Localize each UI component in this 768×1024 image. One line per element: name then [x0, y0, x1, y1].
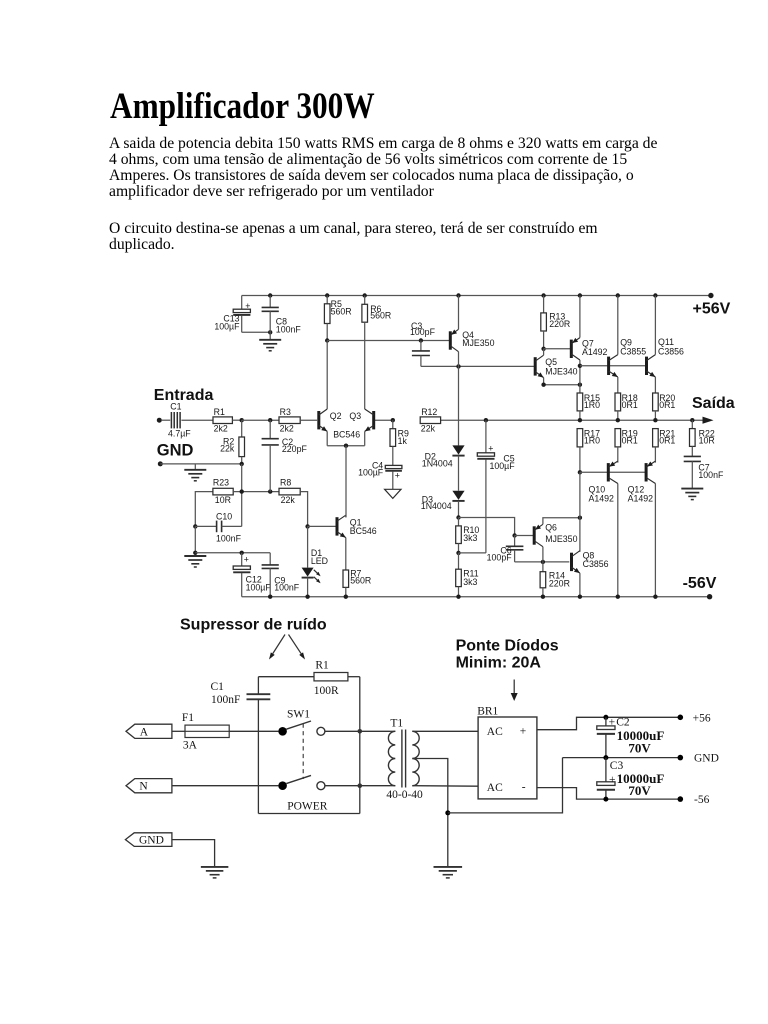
wire tail current to Q1 collector: [345, 446, 347, 518]
ground symbol lower left: [184, 556, 206, 567]
svg-text:100nF: 100nF: [698, 470, 724, 480]
transistor Q12 A1492: [628, 461, 656, 504]
wire Q7 collector to +56V rail: [579, 296, 581, 338]
capacitor C10 100nF: [193, 512, 242, 544]
svg-text:+: +: [520, 726, 527, 738]
capacitor C1 100nF (snubber): [211, 677, 271, 814]
svg-text:Q2: Q2: [330, 411, 342, 421]
ground below C8: [259, 332, 281, 351]
transistor Q2 BC546 (with Q3 differential pair): [317, 409, 361, 440]
wire T1 secondary bottom to bridge AC: [412, 785, 478, 788]
paragraph 2: [109, 221, 598, 253]
ground below C7: [681, 489, 703, 500]
svg-text:100nF: 100nF: [211, 694, 240, 706]
capacitor C13 100uF: [214, 296, 250, 333]
resistor R10 3k3: [456, 518, 480, 553]
transistor Q7 A1492: [570, 338, 608, 360]
svg-text:R23: R23: [213, 477, 229, 487]
wire R6 to Q3 collector: [364, 322, 366, 409]
svg-text:R1: R1: [214, 407, 225, 417]
svg-text:C10: C10: [216, 512, 232, 522]
paragraph 1: [109, 136, 657, 200]
wire GND mid rail: [563, 755, 684, 761]
wire +56V top supply rail: [242, 293, 714, 298]
svg-text:+56V: +56V: [693, 301, 731, 318]
ground symbol below centre tap: [434, 867, 463, 878]
svg-text:Q6: Q6: [545, 523, 557, 533]
node Saida label: [692, 395, 735, 412]
svg-text:SW1: SW1: [287, 709, 310, 721]
transistor Q11 C3856: [645, 337, 684, 377]
svg-text:100µF: 100µF: [246, 582, 272, 592]
capacitor C3 100pF: [410, 321, 436, 367]
svg-text:Entrada: Entrada: [154, 387, 214, 404]
svg-text:R12: R12: [421, 407, 437, 417]
svg-text:4.7µF: 4.7µF: [168, 428, 191, 438]
transistor Q3 BC546: [365, 409, 376, 431]
resistor R9 1k: [390, 420, 409, 446]
svg-text:BR1: BR1: [477, 705, 498, 717]
capacitor C8 100nF: [262, 296, 302, 335]
connector GND: [125, 833, 214, 867]
document title: [110, 88, 375, 125]
wire Q1 emitter to R7: [345, 538, 347, 570]
resistor R8 22k: [279, 477, 308, 526]
svg-text:AC: AC: [487, 726, 503, 738]
svg-text:C1: C1: [170, 401, 181, 411]
transistor Q4 MJE350: [449, 329, 495, 351]
node -56V label: [683, 575, 717, 592]
svg-text:LED: LED: [311, 556, 328, 566]
node Entrada label: [154, 387, 214, 404]
resistor R21 0R1: [653, 428, 676, 462]
resistor R17 1R0: [577, 428, 600, 472]
transistor Q6 MJE350: [533, 523, 578, 547]
wire C13 to C8 bottom: [242, 330, 273, 334]
wire snubber loop bottom (POWER box): [258, 677, 362, 814]
wire Q4 emitter to +56V rail: [458, 296, 460, 330]
svg-text:70V: 70V: [628, 741, 651, 756]
svg-text:1N4004: 1N4004: [421, 501, 452, 511]
node -56 label: [694, 794, 710, 806]
svg-text:F1: F1: [182, 712, 194, 724]
node Supressor de ruido label: [180, 617, 327, 634]
svg-text:T1: T1: [390, 717, 403, 729]
wire BR1 - output to C3 / -56: [537, 788, 683, 802]
svg-text:A1492: A1492: [582, 347, 608, 357]
wire C3 bottom to Q5 base: [421, 364, 534, 368]
wire GND input line: [158, 461, 244, 466]
capacitor C3 10000uF 70V: [597, 758, 665, 800]
capacitor C12 100uF: [233, 553, 271, 597]
switch SW1 (upper pole): [278, 709, 325, 736]
svg-text:Saída: Saída: [692, 395, 735, 412]
svg-text:-: -: [522, 781, 526, 793]
svg-text:22k: 22k: [220, 444, 235, 454]
capacitor C4 100uF: [358, 446, 402, 480]
svg-text:560R: 560R: [370, 311, 391, 321]
resistor R1 2k2: [213, 407, 242, 434]
svg-text:R3: R3: [280, 407, 291, 417]
svg-text:AC: AC: [487, 782, 503, 794]
capacitor C7 100nF: [684, 446, 724, 488]
switch SW1 (lower pole): [278, 775, 325, 790]
svg-text:C3855: C3855: [620, 347, 646, 357]
svg-text:C1: C1: [211, 681, 225, 693]
connector A: [126, 724, 185, 738]
resistor R18 0R1: [615, 393, 638, 420]
svg-text:+: +: [395, 471, 400, 481]
wire BR1 + output to C2 / +56: [537, 715, 683, 730]
fuse F1 3A: [182, 712, 229, 751]
svg-text:560R: 560R: [331, 306, 352, 316]
wire Q6 collector to Q8 collector rail: [543, 516, 582, 525]
svg-text:100µF: 100µF: [358, 467, 384, 477]
resistor R11 3k3: [456, 553, 479, 597]
svg-text:22k: 22k: [421, 423, 436, 433]
svg-text:BC546: BC546: [333, 430, 360, 440]
svg-text:100µF: 100µF: [489, 461, 515, 471]
callout arrows to snubber: [269, 635, 305, 660]
wire ground line to C12 C9: [195, 551, 270, 555]
svg-text:MJE350: MJE350: [462, 338, 494, 348]
wire Q10/Q12 base bus from R17: [578, 470, 646, 474]
svg-text:100nF: 100nF: [216, 533, 242, 543]
resistor R12 22k: [420, 407, 440, 433]
svg-text:100nF: 100nF: [276, 325, 302, 335]
resistor R22 10R: [690, 420, 715, 446]
resistor R20 0R1: [653, 393, 676, 420]
svg-text:10R: 10R: [215, 495, 231, 505]
capacitor C9 100nF: [262, 553, 300, 597]
svg-text:10R: 10R: [699, 436, 715, 446]
wire Q7 emitter to output-device base bus: [578, 360, 582, 393]
svg-text:A1492: A1492: [628, 494, 654, 504]
svg-text:+: +: [245, 301, 250, 311]
svg-text:C2: C2: [616, 716, 630, 728]
callout arrow to bridge: [511, 680, 518, 702]
svg-text:Q5: Q5: [545, 357, 557, 367]
svg-text:A: A: [140, 726, 149, 738]
node GND mid label: [694, 753, 719, 765]
transistor Q5 MJE340: [534, 355, 578, 377]
wire R2 bottom to R23/R8 line: [241, 464, 243, 527]
input node dot Entrada: [157, 418, 170, 423]
wire R5 node to Q4 base: [325, 338, 450, 342]
resistor R7 560R: [343, 568, 371, 596]
node POWER label: [287, 800, 328, 812]
svg-text:3A: 3A: [183, 739, 198, 751]
wire Q10 emitter to -56V rail: [617, 484, 619, 597]
wire output / feedback line: [375, 417, 714, 424]
svg-text:40-0-40: 40-0-40: [386, 789, 423, 801]
capacitor C2 220pF: [262, 420, 308, 491]
svg-text:1k: 1k: [398, 436, 408, 446]
resistor R13 220R: [541, 296, 570, 349]
capacitor C1 4.7uF: [168, 401, 191, 438]
svg-text:+: +: [488, 443, 493, 453]
diode D2 1N4004: [422, 445, 465, 490]
ground symbol below GND connector: [201, 867, 229, 878]
svg-text:N: N: [139, 781, 148, 793]
svg-text:A1492: A1492: [589, 494, 615, 504]
svg-text:3k3: 3k3: [463, 533, 477, 543]
wire C1 to R1: [181, 419, 213, 421]
wire R23 to R8 line: [233, 489, 279, 493]
svg-text:220R: 220R: [549, 319, 570, 329]
wire Q11 collector to +56V rail: [654, 296, 656, 355]
wire -56V bottom supply rail: [242, 594, 713, 599]
wire R17 rail down to Q8 collector: [579, 472, 581, 552]
svg-text:100µF: 100µF: [214, 321, 240, 331]
svg-text:0R1: 0R1: [659, 436, 675, 446]
svg-text:Q3: Q3: [349, 411, 361, 421]
svg-text:220pF: 220pF: [282, 444, 308, 454]
diode D1 LED: [302, 524, 328, 597]
svg-text:R8: R8: [280, 477, 291, 487]
svg-text:-56V: -56V: [683, 575, 717, 592]
resistor R23 10R: [195, 477, 233, 526]
resistor R15 1R0: [577, 393, 600, 420]
svg-text:220R: 220R: [549, 578, 570, 588]
wire R1/R3/R2 junction: [240, 418, 280, 422]
svg-text:+56: +56: [693, 713, 711, 725]
svg-text:MJE340: MJE340: [545, 367, 577, 377]
svg-text:C3856: C3856: [658, 346, 684, 356]
svg-text:POWER: POWER: [287, 800, 328, 812]
resistor R3 2k2: [279, 407, 317, 434]
svg-text:1R0: 1R0: [584, 436, 600, 446]
svg-text:GND: GND: [157, 442, 194, 460]
capacitor C6 100pF: [487, 536, 524, 563]
node +56V label: [693, 301, 731, 318]
svg-text:0R1: 0R1: [659, 400, 675, 410]
resistor R1 100R (snubber): [258, 659, 359, 697]
svg-text:+: +: [609, 774, 616, 786]
svg-text:Supressor de ruído: Supressor de ruído: [180, 617, 327, 634]
transformer T1 40-0-40: [386, 717, 423, 801]
svg-text:R1: R1: [315, 659, 329, 671]
wire T1 secondary top to bridge AC: [412, 730, 478, 732]
node R10/R11/C5 junction: [456, 551, 486, 555]
wire Q9 emitter to R18: [617, 377, 619, 393]
svg-text:+: +: [609, 716, 616, 728]
wire switch to T1 primary (lower): [325, 785, 390, 787]
svg-text:70V: 70V: [628, 783, 651, 798]
transistor Q1 BC546: [308, 515, 377, 537]
wire C6 bottom to R14 / Q8 base: [515, 560, 570, 564]
svg-text:1N4004: 1N4004: [422, 458, 453, 468]
svg-text:-56: -56: [694, 794, 710, 806]
svg-text:0R1: 0R1: [622, 400, 638, 410]
svg-text:100R: 100R: [314, 685, 339, 697]
wire Q9 collector to +56V rail: [617, 296, 619, 355]
wire switch to T1 primary (upper): [325, 730, 390, 732]
connector N: [126, 779, 278, 793]
wire Q4 collector down VAS rail: [458, 352, 460, 446]
transistor Q10 A1492: [589, 461, 618, 504]
svg-text:22k: 22k: [281, 495, 296, 505]
svg-text:100nF: 100nF: [274, 582, 300, 592]
svg-text:C3856: C3856: [583, 559, 609, 569]
node D3 / R10 junction: [456, 515, 460, 519]
svg-text:560R: 560R: [350, 575, 371, 585]
wire T1 centre tap to ground rail: [412, 759, 450, 867]
transistor Q9 C3855: [607, 338, 646, 377]
resistor R19 0R1: [615, 428, 638, 462]
svg-text:2k2: 2k2: [214, 424, 228, 434]
wire R13 bottom / Q5 collector / Q7 base node: [541, 347, 570, 351]
wire Q5 collector to R13 node: [543, 349, 545, 355]
wire Q12 emitter to -56V rail: [654, 484, 656, 597]
wire Q11 emitter to R20: [654, 377, 656, 393]
resistor R14 220R: [540, 562, 570, 597]
svg-text:BC546: BC546: [350, 526, 377, 536]
svg-text:3k3: 3k3: [463, 577, 477, 587]
capacitor C2 10000uF 70V: [597, 716, 665, 757]
svg-text:0R1: 0R1: [622, 436, 638, 446]
resistor R5 560R: [324, 296, 351, 341]
wire D3 node to Q6 base: [459, 518, 534, 538]
node Ponte Diodos label: [456, 637, 559, 671]
wire Q8 emitter to -56V rail: [579, 573, 581, 597]
svg-text:2k2: 2k2: [280, 424, 294, 434]
bridge rectifier BR1: [477, 705, 537, 799]
wire Q2 emitter bus Q3: [327, 431, 365, 448]
wire R5 node to Q2 collector: [326, 341, 328, 410]
node GND label: [157, 442, 194, 460]
wire left rail to lower ground: [193, 526, 197, 555]
transistor Q8 C3856: [570, 551, 609, 573]
diode D3 1N4004: [421, 491, 465, 518]
resistor R6 560R: [362, 296, 391, 323]
wire base bus Q9 Q11: [580, 365, 646, 367]
svg-text:100pF: 100pF: [410, 327, 436, 337]
wire Q6 emitter to R14 node: [542, 547, 544, 562]
wire Q5 emitter to R15 rail: [541, 378, 582, 387]
chassis ground below C4: [385, 471, 401, 498]
resistor R2 22k: [220, 420, 244, 464]
svg-text:+: +: [244, 554, 249, 564]
switch SW1 gang dashed link: [302, 724, 304, 780]
ground symbol on GND line: [184, 464, 206, 481]
capacitor C5 100uF: [477, 420, 515, 553]
wire GND rail to centre tap: [448, 758, 563, 813]
node +56 label: [693, 713, 711, 725]
svg-text:1R0: 1R0: [584, 400, 600, 410]
svg-text:GND: GND: [139, 835, 164, 847]
svg-text:GND: GND: [694, 753, 719, 765]
wire Q1 collector to diff pair tail: [345, 515, 347, 517]
wire F1 to switch pole: [229, 730, 278, 732]
svg-text:100pF: 100pF: [487, 553, 513, 563]
svg-text:MJE350: MJE350: [545, 534, 577, 544]
svg-text:Ponte Díodos: Ponte Díodos: [456, 637, 559, 654]
svg-text:Minim: 20A: Minim: 20A: [456, 655, 542, 672]
